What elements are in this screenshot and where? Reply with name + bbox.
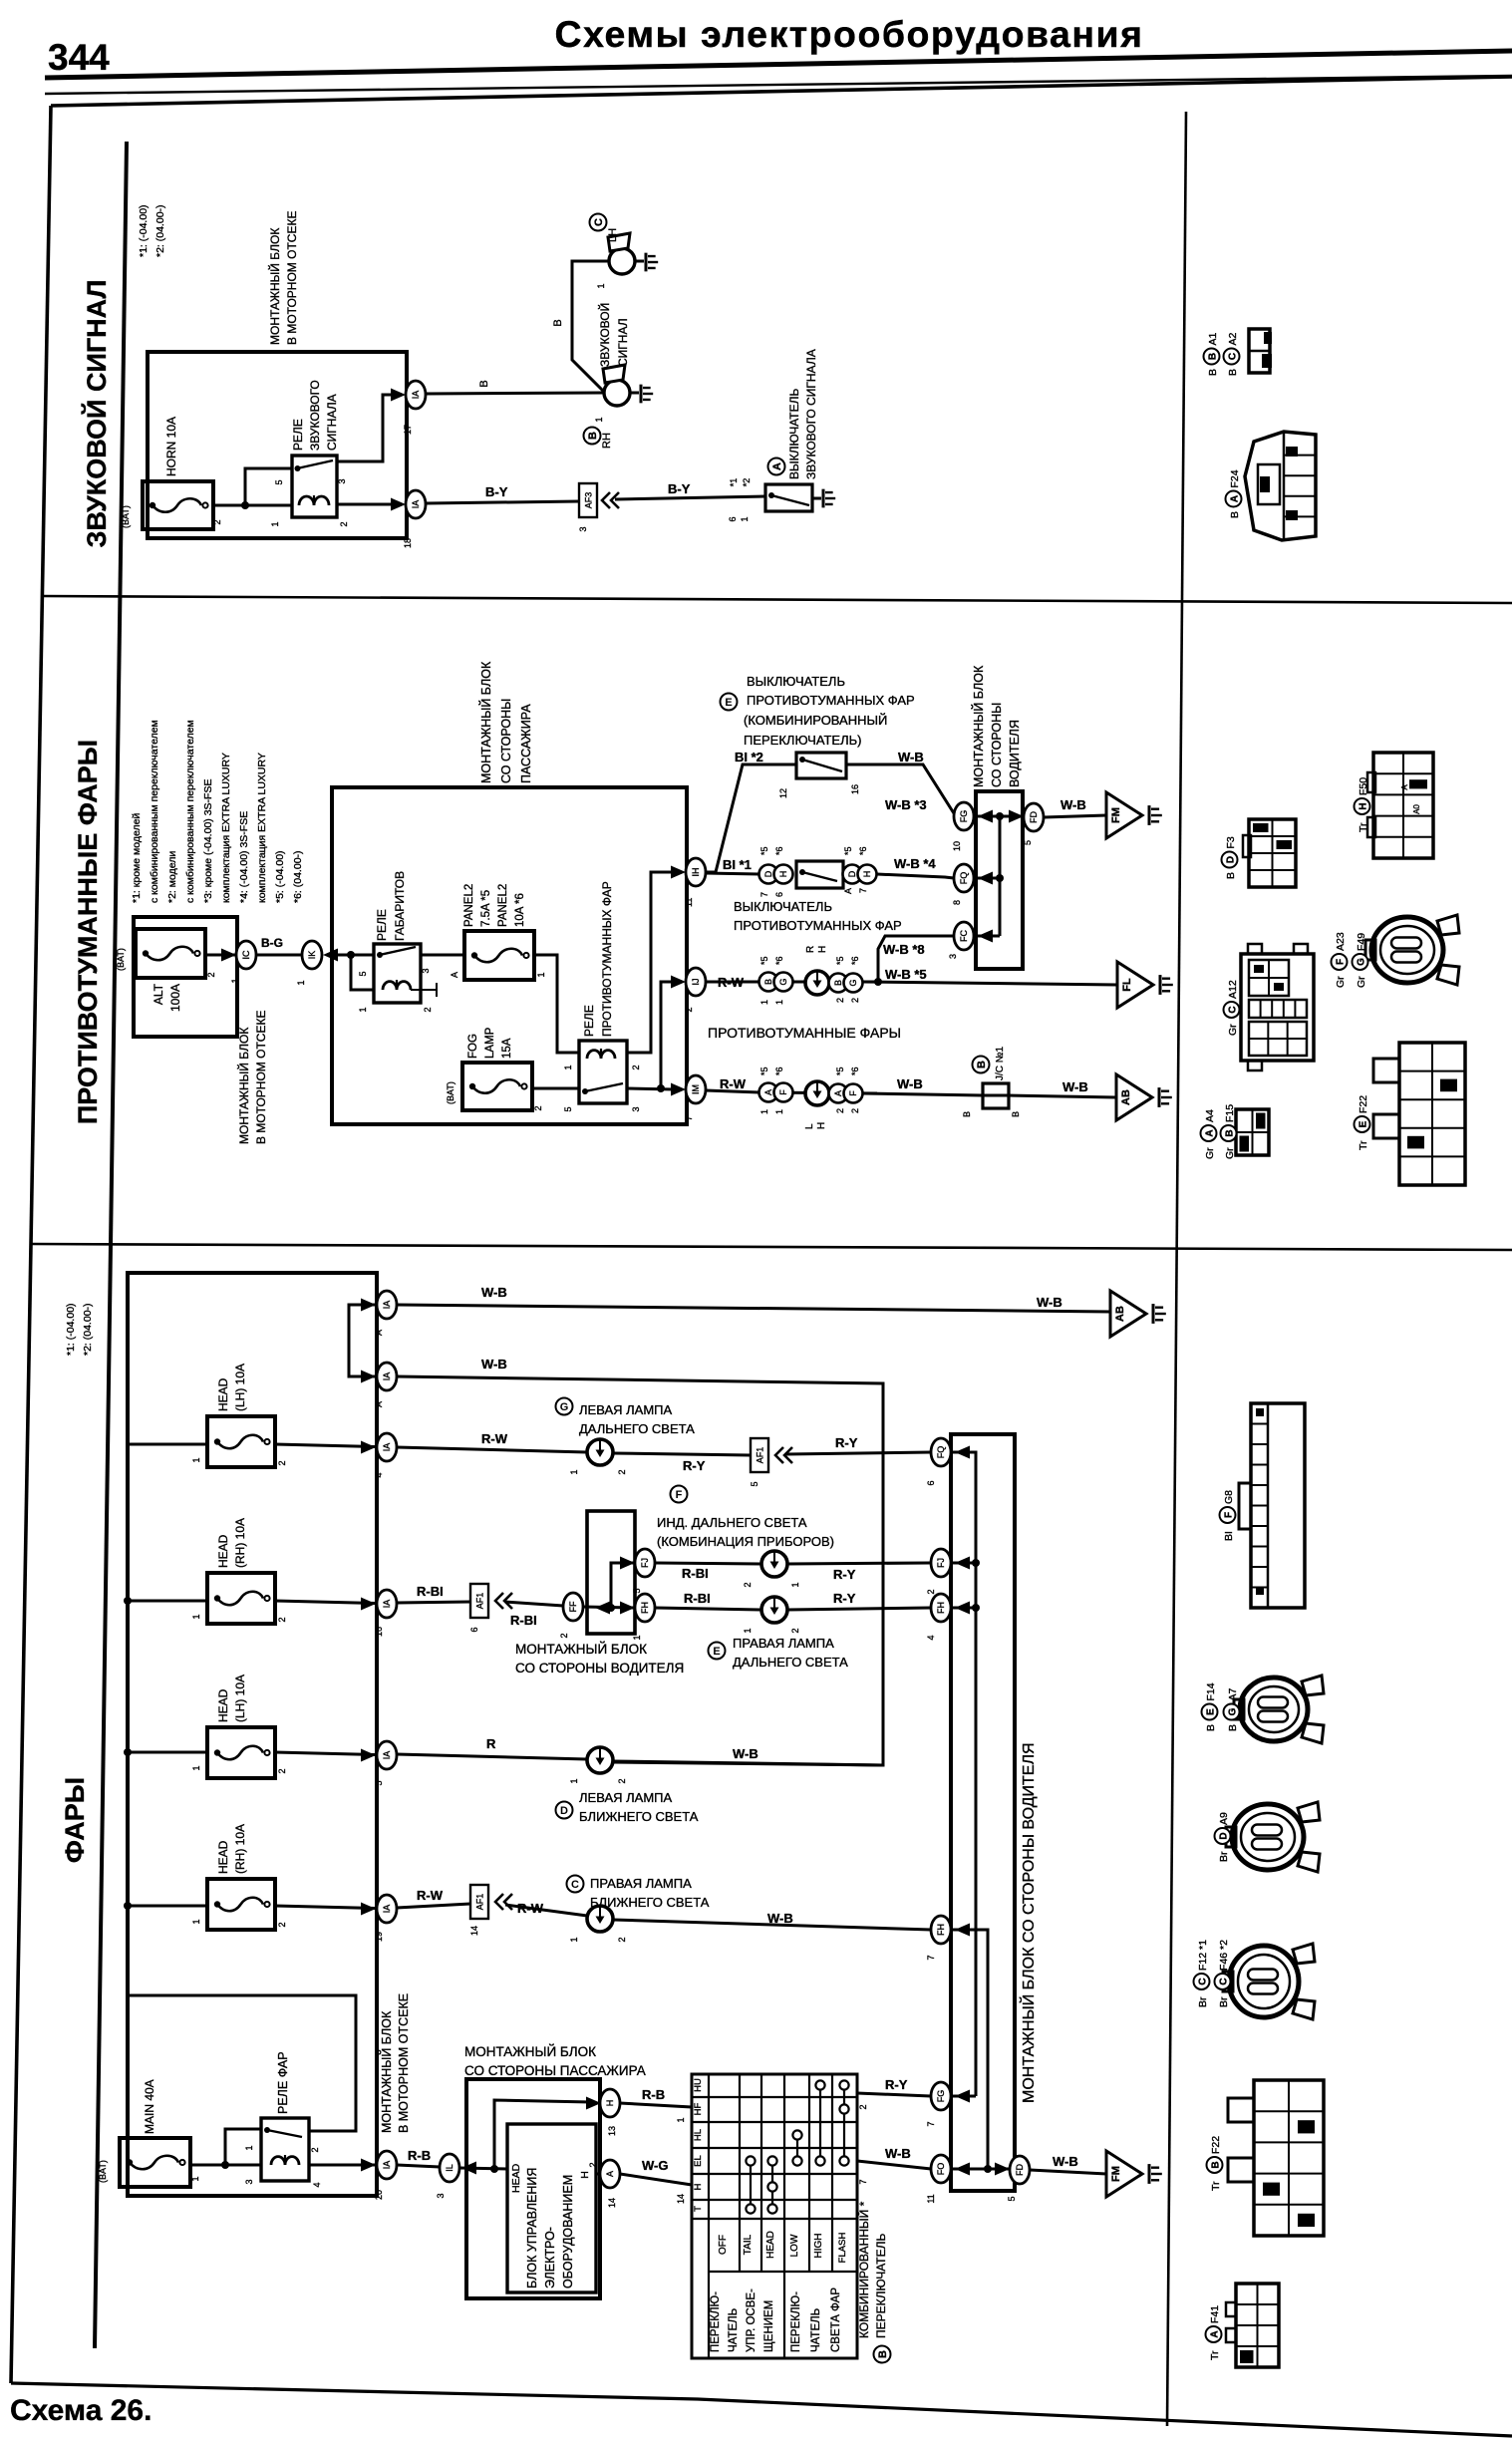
- connector AF1 no2: [469, 1584, 488, 1633]
- label КОМБИНИРОВАННЫЙ ПЕРЕКЛЮЧАТЕЛЬ: [856, 2201, 891, 2362]
- fuse MAIN 40A: [98, 2079, 200, 2187]
- svg-text:2: 2: [588, 2162, 598, 2167]
- arrow into 17IA: [391, 389, 406, 402]
- wire label R-W (LH): [720, 1076, 747, 1091]
- svg-text:F3: F3: [1225, 836, 1237, 848]
- fuse HEAD (LH) 10A: [191, 1364, 287, 1467]
- connector 11 FO: [926, 2155, 1010, 2204]
- svg-text:B: B: [833, 980, 843, 986]
- table contact bars: [746, 2080, 848, 2213]
- svg-text:(LH) 10A: (LH) 10A: [233, 1675, 247, 1722]
- svg-text:B: B: [877, 2350, 889, 2358]
- svg-text:ВЫКЛЮЧАТЕЛЬ: ВЫКЛЮЧАТЕЛЬ: [747, 674, 845, 689]
- svg-text:15A: 15A: [501, 1038, 513, 1059]
- connector icon A12: [1241, 944, 1314, 1070]
- label МОНТАЖНЫЙ БЛОК В МОТОРНОМ ОТСЕКЕ (horn): [267, 211, 299, 345]
- svg-text:ПРАВАЯ ЛАМПА: ПРАВАЯ ЛАМПА: [590, 1876, 692, 1891]
- svg-text:11: 11: [684, 898, 694, 907]
- wire B-Y from AF3 to horn switch: [615, 496, 765, 499]
- svg-text:ДАЛЬНЕГО СВЕТА: ДАЛЬНЕГО СВЕТА: [733, 1655, 848, 1670]
- svg-text:F15: F15: [1224, 1104, 1236, 1122]
- wire label R-W (RH): [718, 975, 745, 990]
- wire label W-B *5: [885, 967, 927, 982]
- label ПРОТИВОТУМАННЫЕ ФАРЫ: [708, 1025, 901, 1041]
- svg-text:Схемы электрооборудования: Схемы электрооборудования: [555, 13, 1144, 55]
- svg-text:W-B *3: W-B *3: [885, 797, 927, 812]
- connector label A7: [1224, 1687, 1240, 1731]
- svg-text:F41: F41: [1209, 2305, 1221, 2323]
- svg-text:B: B: [976, 1061, 988, 1068]
- svg-text:1: 1: [191, 1765, 201, 1770]
- connector 11 IH: [684, 858, 706, 907]
- svg-text:РЕЛЕ: РЕЛЕ: [375, 909, 389, 941]
- svg-text:13: 13: [607, 2126, 617, 2136]
- svg-text:HEAD: HEAD: [216, 1688, 230, 1722]
- svg-text:ЛЕВАЯ ЛАМПА: ЛЕВАЯ ЛАМПА: [579, 1790, 672, 1805]
- loop between IA ovals: [349, 1305, 376, 1376]
- relay РЕЛЕ ПРОТИВОТУМАННЫХ ФАР: [563, 881, 641, 1111]
- svg-text:HL: HL: [693, 2129, 704, 2141]
- svg-text:1: 1: [536, 972, 546, 977]
- svg-text:A: A: [763, 1089, 773, 1095]
- connector icon F3: [1243, 819, 1296, 887]
- connector label F22 Tr B: [1207, 2136, 1223, 2191]
- wire W-B FD to FM ground: [1044, 815, 1106, 817]
- svg-text:7: 7: [759, 892, 769, 897]
- wire W-B to J/C: [863, 1093, 983, 1095]
- svg-text:R-W: R-W: [417, 1888, 444, 1903]
- wire bus to fuse row 4: [128, 1444, 376, 1447]
- connector 8 FQ: [952, 864, 974, 905]
- svg-text:H: H: [816, 1122, 827, 1129]
- connector label G8: [1220, 1490, 1236, 1541]
- ground at horn switch: [812, 489, 835, 508]
- svg-text:5: 5: [1023, 840, 1033, 845]
- connector 4 IA: [374, 1433, 397, 1478]
- svg-text:ИНД. ДАЛЬНЕГО СВЕТА: ИНД. ДАЛЬНЕГО СВЕТА: [657, 1515, 807, 1530]
- connector 16 IA: [374, 1590, 397, 1637]
- svg-text:BI *1: BI *1: [723, 857, 752, 872]
- svg-text:3: 3: [436, 2193, 446, 2198]
- wire W-B combo to FO: [857, 2161, 931, 2185]
- svg-text:*1: (-04.00): *1: (-04.00): [65, 1303, 77, 1356]
- section divider horn/fog: [42, 596, 1512, 603]
- wire label R: [486, 1736, 496, 1751]
- svg-text:ГАБАРИТОВ: ГАБАРИТОВ: [393, 871, 407, 941]
- svg-text:СИГНАЛ: СИГНАЛ: [616, 318, 630, 367]
- svg-text:РЕЛЕ: РЕЛЕ: [291, 419, 305, 451]
- wire label W-B (FD bottom): [1053, 2154, 1078, 2169]
- svg-text:B: B: [587, 432, 599, 440]
- svg-text:D: D: [1219, 1832, 1230, 1839]
- svg-text:7: 7: [926, 2121, 936, 2126]
- svg-text:IA: IA: [411, 500, 421, 509]
- svg-text:B: B: [1229, 511, 1241, 518]
- svg-text:IK: IK: [307, 951, 317, 960]
- svg-text:W-B: W-B: [885, 2146, 911, 2161]
- connector AF1 no1: [750, 1438, 768, 1487]
- junction connector J/C No1: [962, 1046, 1021, 1117]
- svg-text:1: 1: [774, 1109, 784, 1114]
- fog switch box: [796, 861, 843, 888]
- svg-text:1: 1: [190, 2176, 200, 2181]
- connector label B A1: [1204, 332, 1220, 376]
- connector 5 FD (bottom): [1007, 2156, 1030, 2202]
- connector 5 IA: [374, 1741, 397, 1786]
- svg-text:D: D: [847, 870, 857, 877]
- svg-text:A2: A2: [1227, 332, 1239, 345]
- chevrons AF1 no3: [495, 1894, 512, 1910]
- svg-text:W-B: W-B: [767, 1911, 793, 1926]
- svg-text:(RH) 10A: (RH) 10A: [233, 1518, 247, 1568]
- svg-text:ФАРЫ: ФАРЫ: [60, 1777, 90, 1863]
- svg-text:HIGH: HIGH: [813, 2234, 824, 2259]
- svg-text:R-B: R-B: [408, 2148, 431, 2163]
- combination switch table: [692, 2074, 857, 2358]
- connector label A9: [1215, 1812, 1231, 1862]
- svg-text:FH: FH: [936, 1924, 946, 1936]
- svg-text:17: 17: [403, 425, 413, 435]
- label left high beam lamp: [556, 1398, 696, 1437]
- lamp high beam indicator: [743, 1551, 800, 1588]
- svg-text:A: A: [833, 1090, 843, 1096]
- svg-text:7: 7: [858, 888, 868, 893]
- svg-text:1: 1: [596, 283, 606, 288]
- svg-text:1: 1: [244, 2145, 254, 2150]
- svg-text:FC: FC: [959, 930, 969, 942]
- fog switch connector circles right: [843, 846, 877, 894]
- wire relay pin2 to connector 18: [337, 503, 397, 506]
- lamp right high beam: [743, 1597, 800, 1634]
- ground point FM (fog): [1106, 792, 1162, 838]
- svg-text:ПЕРЕКЛЮ-: ПЕРЕКЛЮ-: [790, 2291, 802, 2352]
- svg-text:(КОМБИНИРОВАННЫЙ: (КОМБИНИРОВАННЫЙ: [744, 713, 887, 728]
- svg-text:HEAD: HEAD: [216, 1840, 230, 1874]
- wire label BI *2: [735, 750, 763, 764]
- svg-text:R-W: R-W: [720, 1076, 747, 1091]
- outer box bottom border: [11, 2383, 1512, 2436]
- svg-text:1: 1: [270, 521, 280, 526]
- wire R-W to left high lamp: [397, 1447, 587, 1452]
- wire W-B row1 to AB ground: [397, 1305, 1110, 1312]
- pin 1 combo: [676, 2117, 686, 2122]
- wire W-B left low lamp: [613, 1761, 883, 1765]
- svg-text:ЗВУКОВОЙ СИГНАЛ: ЗВУКОВОЙ СИГНАЛ: [81, 280, 112, 548]
- svg-text:*6: *6: [774, 846, 784, 855]
- svg-text:F49: F49: [1356, 933, 1367, 951]
- connector label A12: [1224, 980, 1240, 1036]
- svg-text:10: 10: [952, 841, 962, 851]
- svg-text:A9: A9: [1218, 1812, 1230, 1825]
- note *1 *2 (horn): [138, 204, 166, 257]
- svg-text:C: C: [1228, 1006, 1239, 1013]
- svg-text:ПРОТИВОТУМАННЫХ ФАР: ПРОТИВОТУМАННЫХ ФАР: [600, 881, 614, 1037]
- svg-text:16: 16: [374, 1627, 384, 1637]
- svg-text:*5: *5: [759, 956, 769, 965]
- svg-text:C: C: [1198, 1978, 1209, 1984]
- wire PANEL2 down to fog relay pin1: [534, 955, 579, 1053]
- svg-text:14: 14: [676, 2194, 686, 2204]
- svg-text:R-W: R-W: [481, 1431, 508, 1446]
- connector icon F22 Tr B: [1228, 2080, 1324, 2236]
- connector AF1 no3: [469, 1885, 488, 1936]
- svg-text:W-B *5: W-B *5: [885, 967, 927, 982]
- connector label B A2: [1224, 332, 1240, 376]
- svg-text:E: E: [1359, 1120, 1369, 1127]
- control unit БЛОК УПРАВЛЕНИЯ: [507, 2124, 596, 2292]
- junction block driver side (fog): [976, 791, 1023, 969]
- wire fog relay pin2 up to IH: [627, 872, 675, 1053]
- svg-text:*6: *6: [850, 1067, 860, 1075]
- table mode labels: [718, 2231, 848, 2263]
- svg-text:*4: (-04.00) 3S-FSE: *4: (-04.00) 3S-FSE: [238, 811, 250, 903]
- label МОНТАЖНЫЙ БЛОК СО СТОРОНЫ ВОДИТЕЛЯ (indicator): [515, 1642, 684, 1676]
- fog lamp RH connector circles and lamp: [758, 946, 877, 1005]
- svg-text:G: G: [778, 978, 788, 985]
- svg-text:2: 2: [533, 1105, 543, 1110]
- svg-text:6: 6: [774, 892, 784, 897]
- svg-text:СИГНАЛА: СИГНАЛА: [325, 394, 339, 451]
- ground at horn RH: [630, 385, 653, 404]
- internal R-Y trunk: [951, 1446, 980, 2097]
- svg-text:FJ: FJ: [936, 1558, 946, 1568]
- svg-text:PANEL2: PANEL2: [497, 884, 509, 927]
- svg-text:H: H: [862, 871, 872, 878]
- wire horn LH branch: [572, 261, 609, 391]
- svg-text:ДАЛЬНЕГО СВЕТА: ДАЛЬНЕГО СВЕТА: [579, 1421, 695, 1436]
- svg-text:1: 1: [230, 978, 240, 983]
- wire label R-BI (FH row): [684, 1591, 711, 1606]
- margin line left of section titles: [95, 142, 127, 2348]
- arrow into 16 IA: [361, 1598, 376, 1611]
- svg-text:*6: *6: [850, 956, 860, 965]
- connector 3 FC: [948, 922, 974, 959]
- svg-text:F24: F24: [1229, 469, 1241, 487]
- wire R-Y combo to FG: [857, 2093, 931, 2110]
- wire label W-B *3: [885, 797, 927, 812]
- wire label R-W (high left): [481, 1431, 508, 1446]
- svg-text:2: 2: [835, 998, 845, 1003]
- svg-text:B: B: [1208, 353, 1219, 360]
- svg-text:R-W: R-W: [517, 1901, 544, 1916]
- svg-text:B-Y: B-Y: [485, 484, 508, 499]
- svg-text:В МОТОРНОМ ОТСЕКЕ: В МОТОРНОМ ОТСЕКЕ: [254, 1011, 268, 1144]
- svg-text:3: 3: [244, 2179, 254, 2184]
- arrow into 20 IA: [361, 2159, 376, 2172]
- label МОНТАЖНЫЙ БЛОК СО СТОРОНЫ ПАССАЖИРА (head): [464, 2044, 646, 2078]
- section divider fog/head: [31, 1244, 1512, 1250]
- wire label W-B (right low): [767, 1911, 793, 1926]
- svg-text:R-Y: R-Y: [833, 1591, 856, 1606]
- wire block edge to relay gabaritov: [332, 951, 374, 990]
- svg-text:L: L: [804, 1123, 815, 1129]
- svg-text:Gr: Gr: [1227, 1024, 1239, 1036]
- svg-text:HU: HU: [693, 2078, 704, 2092]
- svg-text:1: 1: [191, 1919, 201, 1924]
- svg-text:B: B: [1225, 872, 1237, 879]
- svg-text:2: 2: [277, 1922, 287, 1927]
- svg-text:R-Y: R-Y: [833, 1567, 856, 1582]
- svg-text:2: 2: [310, 2147, 320, 2152]
- svg-text:H: H: [605, 2100, 615, 2107]
- arrow into 5 IA: [361, 1749, 376, 1762]
- svg-text:F: F: [1224, 1512, 1235, 1518]
- connector 10 FG: [952, 802, 974, 851]
- connector icon F24: [1245, 432, 1316, 540]
- section title ФАРЫ: [60, 1777, 90, 1863]
- svg-text:A: A: [1205, 1129, 1216, 1136]
- svg-text:B: B: [1225, 1129, 1236, 1136]
- svg-text:(RH) 10A: (RH) 10A: [233, 1824, 247, 1874]
- svg-text:2: 2: [850, 1108, 860, 1113]
- svg-text:*6: *6: [774, 1067, 784, 1075]
- arrow into 19 IA: [361, 1903, 376, 1916]
- connector 4 FH (block): [926, 1594, 976, 1641]
- svg-text:2: 2: [790, 1628, 800, 1633]
- connector 7 FH (low beam): [926, 1916, 951, 1961]
- fuse PANEL2: [450, 884, 546, 980]
- wire label BI *1: [723, 857, 752, 872]
- svg-text:1: 1: [743, 1628, 753, 1633]
- wire label R-BI (FJ row): [682, 1566, 709, 1581]
- wire label W-B *8: [883, 942, 925, 957]
- wire W-B row2 loop to low beam left lamp: [397, 1376, 883, 1765]
- svg-text:ПРОТИВОТУМАННЫХ ФАР: ПРОТИВОТУМАННЫХ ФАР: [734, 918, 902, 933]
- svg-text:HEAD: HEAD: [216, 1377, 230, 1411]
- svg-text:H: H: [778, 871, 788, 878]
- connector label F46 *2: [1215, 1940, 1231, 2007]
- svg-text:R-Y: R-Y: [885, 2077, 908, 2092]
- connector 5 FJ: [632, 1549, 655, 1594]
- svg-text:AF1: AF1: [475, 1894, 485, 1911]
- svg-text:W-B: W-B: [1060, 797, 1086, 812]
- connector label F49: [1353, 933, 1368, 988]
- junction block passenger side (head): [466, 2079, 600, 2298]
- svg-text:(BAT): (BAT): [98, 2160, 108, 2183]
- svg-text:B-G: B-G: [261, 936, 283, 950]
- label right high beam lamp: [709, 1636, 849, 1670]
- svg-text:B: B: [1207, 369, 1219, 376]
- svg-text:1: 1: [676, 2117, 686, 2122]
- arrow into IM: [671, 1083, 686, 1096]
- arrow into IC: [221, 949, 236, 962]
- combined fog switch box: [778, 753, 860, 798]
- svg-text:*2: (04.00-): *2: (04.00-): [82, 1303, 94, 1356]
- internal wire FQ to trunk: [974, 872, 1004, 885]
- svg-text:A: A: [1230, 495, 1241, 502]
- svg-text:IC: IC: [241, 950, 251, 960]
- svg-text:IA: IA: [382, 2161, 392, 2170]
- wire bus to fuse row 5: [128, 1752, 376, 1755]
- svg-text:1: 1: [296, 980, 306, 985]
- svg-text:16: 16: [850, 784, 860, 794]
- svg-text:*1: кроме моделей: *1: кроме моделей: [131, 813, 143, 903]
- svg-text:В МОТОРНОМ ОТСЕКЕ: В МОТОРНОМ ОТСЕКЕ: [397, 1993, 411, 2133]
- svg-text:LOW: LOW: [789, 2234, 800, 2257]
- svg-text:11: 11: [926, 2194, 936, 2203]
- svg-text:A: A: [374, 1330, 384, 1336]
- svg-text:МОНТАЖНЫЙ БЛОК: МОНТАЖНЫЙ БЛОК: [478, 661, 493, 783]
- svg-text:D: D: [763, 870, 773, 877]
- wire relay to PANEL2 fuse: [421, 954, 464, 957]
- svg-text:IA: IA: [411, 391, 421, 400]
- fuse ALT 100A: [116, 929, 216, 1012]
- svg-text:H: H: [817, 946, 828, 953]
- connector 2 FJ (block): [926, 1549, 976, 1595]
- connector 7 FG (bottom): [926, 2082, 976, 2127]
- connector A IA (top): [374, 1291, 397, 1336]
- arrow into passenger block (fog): [323, 949, 343, 962]
- connector label F22 Tr E: [1355, 1095, 1370, 1150]
- svg-text:20: 20: [374, 2190, 384, 2200]
- connector 3 IL: [436, 2154, 459, 2199]
- svg-text:A0: A0: [1412, 804, 1421, 814]
- notes *1-*6 (fog): [131, 720, 304, 903]
- wire label R-BI (fuse2): [417, 1584, 444, 1599]
- label fog switch: [734, 899, 902, 933]
- svg-text:A7: A7: [1227, 1687, 1239, 1700]
- lamp right low beam: [569, 1906, 627, 1943]
- svg-text:14: 14: [469, 1926, 479, 1936]
- wire W-B right low lamp to FH: [613, 1920, 931, 1930]
- wire label W-B row2: [481, 1357, 507, 1372]
- svg-text:Br: Br: [1218, 1851, 1230, 1862]
- wire label R-W (fuse4): [417, 1888, 444, 1903]
- connector icon F14/A7 oval: [1234, 1676, 1324, 1743]
- svg-text:4: 4: [374, 1472, 384, 1477]
- svg-text:2: 2: [559, 1633, 569, 1638]
- svg-text:W-B: W-B: [1062, 1079, 1088, 1094]
- wire label W-B (left low): [733, 1746, 758, 1761]
- svg-text:комплектация EXTRA LUXURY: комплектация EXTRA LUXURY: [256, 753, 268, 903]
- svg-text:1: 1: [790, 1582, 800, 1587]
- svg-text:Br: Br: [1197, 1996, 1209, 2007]
- svg-text:IL: IL: [445, 2164, 454, 2172]
- arrow into IJ: [671, 976, 686, 989]
- connector 19 IA: [374, 1895, 397, 1942]
- connector 2 IJ: [684, 968, 706, 1013]
- svg-text:FL: FL: [1121, 978, 1133, 992]
- svg-text:IA: IA: [382, 1372, 392, 1381]
- connector 5 FD: [1023, 803, 1044, 845]
- svg-text:FG: FG: [936, 2090, 946, 2103]
- wire MAIN fuse to relay: [190, 2129, 261, 2169]
- svg-text:*6: (04.00-): *6: (04.00-): [292, 850, 304, 903]
- wire W-B J/C to AB ground: [1009, 1095, 1116, 1097]
- svg-text:*1: *1: [729, 478, 739, 487]
- label МОНТАЖНЫЙ БЛОК СО СТОРОНЫ ВОДИТЕЛЯ (bottom): [1019, 1742, 1038, 2103]
- svg-text:BI *2: BI *2: [735, 750, 763, 764]
- svg-text:СО СТОРОНЫ: СО СТОРОНЫ: [499, 699, 513, 783]
- svg-text:FM: FM: [1110, 2166, 1122, 2182]
- svg-text:IA: IA: [382, 1905, 392, 1914]
- connector 7 IM: [684, 1075, 706, 1121]
- svg-text:B: B: [478, 380, 490, 387]
- svg-text:IM: IM: [691, 1084, 701, 1094]
- connector icon A9 oval: [1226, 1802, 1320, 1872]
- svg-text:F: F: [778, 1089, 788, 1095]
- fuse FOG LAMP 15A: [446, 1027, 543, 1110]
- arrow into IH: [671, 866, 686, 879]
- svg-text:IJ: IJ: [691, 978, 701, 985]
- svg-text:AF3: AF3: [584, 492, 594, 509]
- svg-text:F22: F22: [1358, 1095, 1369, 1113]
- connector AF3: [578, 483, 597, 532]
- wire label R-Y (FH row): [833, 1591, 856, 1606]
- arrow into A IA second: [361, 1371, 376, 1383]
- svg-text:2: 2: [743, 1582, 753, 1587]
- fuse HORN 10A: [121, 417, 222, 529]
